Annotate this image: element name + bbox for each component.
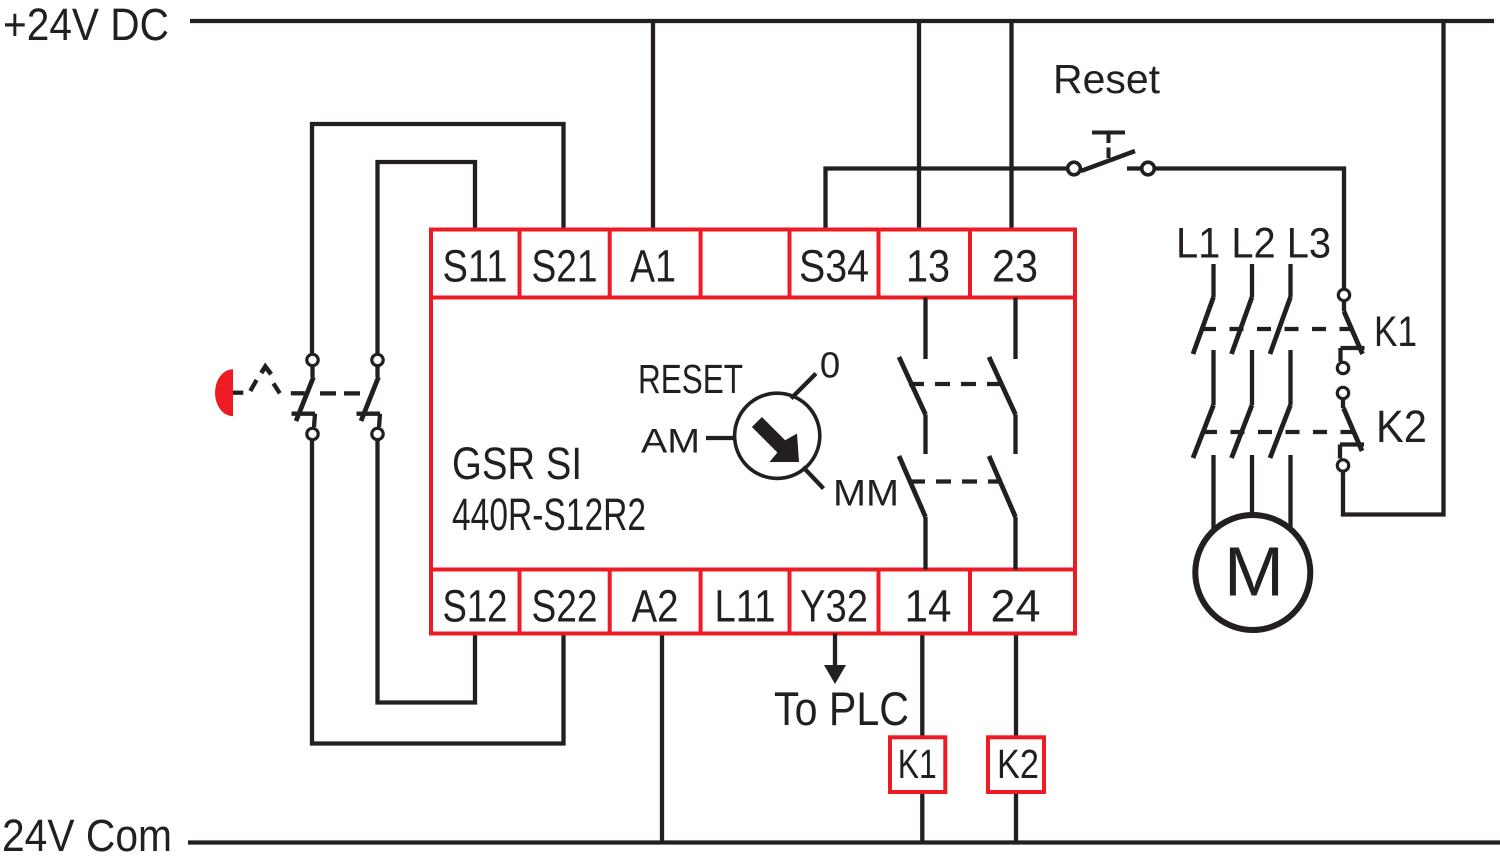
svg-text:24: 24 xyxy=(991,581,1041,632)
wire estop right to S12 xyxy=(378,441,476,703)
svg-text:Reset: Reset xyxy=(1053,56,1161,102)
wire e-stop linkage (dashed with caret) xyxy=(233,367,360,394)
motor M1 xyxy=(1195,515,1310,630)
coil K2 xyxy=(988,737,1044,792)
contact e-stop NC 1 xyxy=(292,354,319,439)
wire 24V Com rail xyxy=(188,840,1500,844)
svg-text:K1: K1 xyxy=(1374,308,1417,356)
svg-text:M: M xyxy=(1224,533,1284,611)
wire A1 drop xyxy=(651,21,655,230)
wire K2 pole link (dashed) xyxy=(1203,430,1352,434)
svg-text:GSR SI: GSR SI xyxy=(452,438,582,489)
svg-text:+24V DC: +24V DC xyxy=(3,0,169,50)
svg-text:13: 13 xyxy=(906,241,950,292)
wire S21 upper U xyxy=(312,124,564,353)
svg-text:0: 0 xyxy=(820,345,840,386)
svg-text:S12: S12 xyxy=(443,581,508,632)
contact K1 main poles (3-phase) xyxy=(1193,264,1291,405)
pushbutton Reset (momentary NO) xyxy=(1068,133,1155,175)
wire A2 drop xyxy=(660,633,664,843)
svg-text:MM: MM xyxy=(833,473,899,514)
wire Y32 to PLC (arrow) xyxy=(833,634,837,669)
svg-text:K1: K1 xyxy=(898,741,937,787)
wire S11 inner U xyxy=(378,162,476,353)
wire 14 to K1 coil xyxy=(920,633,924,737)
svg-text:S21: S21 xyxy=(532,241,598,292)
wire +24V DC rail xyxy=(190,19,1494,23)
wire reset to K1 aux xyxy=(1155,169,1345,289)
wire K1 pole link (dashed) xyxy=(1202,327,1352,331)
svg-text:L11: L11 xyxy=(715,581,776,632)
svg-text:14: 14 xyxy=(905,581,952,632)
svg-text:K2: K2 xyxy=(997,741,1039,787)
wire right edge drop xyxy=(1343,21,1444,515)
wire 23 drop xyxy=(1009,21,1013,230)
contact 23-24 channel (in relay) xyxy=(989,298,1016,570)
selector knob arrow xyxy=(752,417,799,462)
svg-text:23: 23 xyxy=(992,241,1038,292)
relay U1 body (GSR SI 440R-S12R2) xyxy=(431,230,1075,634)
svg-text:A1: A1 xyxy=(630,241,676,292)
wire contact link lower (dashed) xyxy=(910,479,1002,483)
wire estop left to S22 xyxy=(312,441,564,744)
contact 13-14 channel (in relay) xyxy=(899,298,926,570)
svg-text:S34: S34 xyxy=(799,241,869,292)
coil K1 xyxy=(890,737,945,792)
svg-text:AM: AM xyxy=(641,423,700,461)
svg-text:24V Com: 24V Com xyxy=(2,810,172,861)
selector switch (rotary) xyxy=(706,374,824,489)
wire S34 to reset xyxy=(826,169,1068,231)
svg-text:K2: K2 xyxy=(1376,401,1427,452)
svg-text:RESET: RESET xyxy=(638,356,743,402)
contact K2 main poles (3-phase) xyxy=(1193,405,1291,545)
wire K1 coil to rail xyxy=(920,792,924,843)
svg-text:S11: S11 xyxy=(443,241,508,292)
wire K2 coil to rail xyxy=(1014,792,1018,843)
wire 13 drop xyxy=(917,21,921,230)
svg-text:Y32: Y32 xyxy=(800,581,868,632)
svg-text:S22: S22 xyxy=(532,581,598,632)
wire 24 to K2 coil xyxy=(1014,633,1018,737)
contact K1 aux NC xyxy=(1337,289,1364,373)
svg-text:L1 L2 L3: L1 L2 L3 xyxy=(1176,220,1331,268)
switch S1 e-stop mushroom xyxy=(215,369,233,416)
contact e-stop NC 2 xyxy=(357,354,384,439)
wire contact link upper (dashed) xyxy=(909,382,1002,386)
svg-text:To PLC: To PLC xyxy=(774,683,909,736)
contact K2 aux NC xyxy=(1337,387,1364,471)
svg-text:A2: A2 xyxy=(632,581,679,632)
svg-text:440R-S12R2: 440R-S12R2 xyxy=(452,489,646,540)
